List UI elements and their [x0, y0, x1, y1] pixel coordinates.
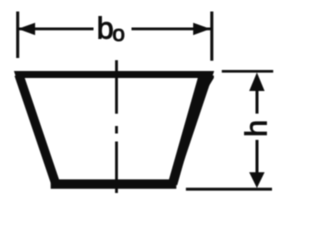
belt right flank [173, 75, 204, 185]
arrowhead up [249, 73, 264, 92]
arrowhead down [249, 172, 264, 188]
h top extension line [222, 70, 273, 73]
right extension line [210, 12, 213, 61]
dimension line b0 left segment [19, 28, 94, 31]
h bottom extension line [186, 188, 272, 191]
dimension line b0 right segment [132, 28, 211, 31]
svg-text:h: h [239, 120, 274, 137]
arrowhead left [18, 23, 35, 35]
left extension line [16, 12, 19, 59]
belt top-right corner wedge [200, 76, 214, 96]
h dimension line lower segment [256, 140, 259, 175]
centerline (dash-dot) [115, 60, 118, 193]
h dimension line upper segment [256, 85, 259, 114]
arrowhead right [193, 23, 210, 35]
svg-text:b: b [97, 12, 114, 46]
belt left flank [19, 75, 56, 185]
svg-text:o: o [112, 21, 125, 46]
belt bottom face [51, 179, 177, 188]
belt cross-section trapezoid [19, 75, 210, 185]
